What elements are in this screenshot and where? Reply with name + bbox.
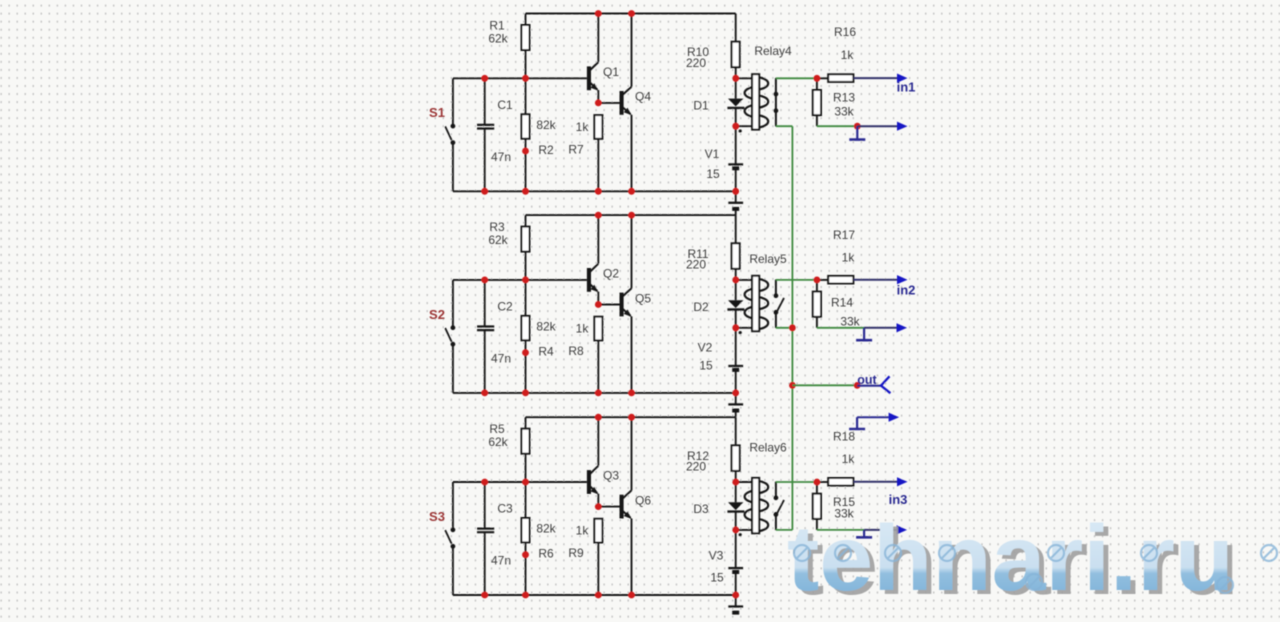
svg-text:R17: R17 — [833, 228, 855, 242]
svg-text:Q5: Q5 — [635, 291, 651, 305]
svg-text:R18: R18 — [833, 430, 855, 444]
svg-text:S2: S2 — [429, 307, 445, 322]
svg-text:1k: 1k — [576, 322, 590, 336]
svg-text:15: 15 — [706, 167, 720, 181]
svg-text:out: out — [857, 373, 877, 387]
svg-text:tehnari.ru: tehnari.ru — [787, 506, 1234, 610]
svg-text:1k: 1k — [842, 251, 856, 265]
svg-text:Q1: Q1 — [603, 65, 619, 79]
svg-text:15: 15 — [710, 571, 724, 585]
svg-text:R3: R3 — [489, 220, 505, 234]
svg-text:1k: 1k — [576, 120, 590, 134]
svg-text:R16: R16 — [834, 25, 856, 39]
svg-text:62k: 62k — [488, 233, 508, 247]
svg-text:D2: D2 — [693, 300, 709, 314]
svg-text:V1: V1 — [705, 147, 720, 161]
svg-text:82k: 82k — [536, 118, 556, 132]
svg-text:in1: in1 — [897, 80, 916, 95]
svg-text:220: 220 — [686, 258, 706, 272]
svg-text:D3: D3 — [693, 502, 709, 516]
svg-text:R4: R4 — [538, 345, 554, 359]
svg-text:C3: C3 — [497, 502, 513, 516]
svg-text:V3: V3 — [709, 549, 724, 563]
svg-text:R8: R8 — [568, 344, 584, 358]
svg-text:Q2: Q2 — [603, 267, 619, 281]
svg-text:S1: S1 — [429, 105, 445, 120]
svg-text:47n: 47n — [491, 554, 511, 568]
svg-text:R14: R14 — [831, 296, 853, 310]
svg-text:220: 220 — [686, 56, 706, 70]
svg-text:V2: V2 — [698, 340, 713, 354]
svg-text:47n: 47n — [491, 150, 511, 164]
svg-text:82k: 82k — [536, 522, 556, 536]
svg-text:C1: C1 — [497, 98, 513, 112]
svg-text:15: 15 — [699, 359, 713, 373]
svg-text:1k: 1k — [576, 524, 590, 538]
svg-text:R13: R13 — [833, 91, 855, 105]
svg-text:C2: C2 — [497, 299, 513, 313]
svg-text:Q4: Q4 — [635, 90, 651, 104]
svg-text:220: 220 — [686, 460, 706, 474]
svg-text:S3: S3 — [429, 509, 445, 524]
svg-text:47n: 47n — [491, 351, 511, 365]
svg-text:Relay5: Relay5 — [749, 252, 787, 266]
svg-text:62k: 62k — [488, 435, 508, 449]
svg-text:33k: 33k — [840, 315, 860, 329]
svg-text:R5: R5 — [489, 422, 505, 436]
svg-text:Q6: Q6 — [635, 493, 651, 507]
svg-text:R2: R2 — [538, 143, 554, 157]
svg-text:R6: R6 — [538, 547, 554, 561]
svg-text:D1: D1 — [693, 98, 709, 112]
svg-text:1k: 1k — [842, 452, 856, 466]
svg-text:Q3: Q3 — [603, 469, 619, 483]
svg-text:in3: in3 — [889, 492, 908, 507]
svg-text:R1: R1 — [489, 18, 505, 32]
svg-text:in2: in2 — [897, 283, 916, 298]
svg-text:R7: R7 — [568, 143, 584, 157]
svg-text:1k: 1k — [841, 48, 855, 62]
svg-text:62k: 62k — [488, 31, 508, 45]
svg-text:33k: 33k — [834, 105, 854, 119]
svg-text:Relay6: Relay6 — [749, 440, 787, 454]
svg-text:Relay4: Relay4 — [754, 44, 792, 58]
svg-text:R9: R9 — [568, 546, 584, 560]
svg-text:82k: 82k — [536, 319, 556, 333]
